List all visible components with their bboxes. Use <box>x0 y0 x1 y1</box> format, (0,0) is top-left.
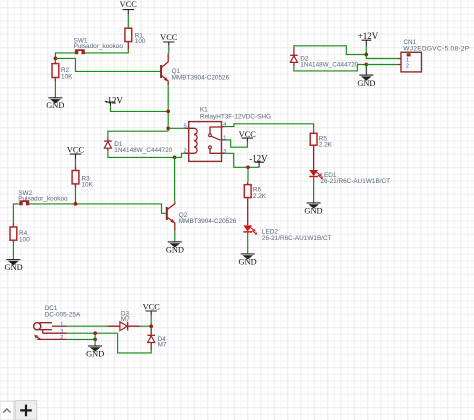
svg-text:10K: 10K <box>82 182 94 189</box>
wire junction to CN1 pin 2 <box>366 64 397 66</box>
wire -12V to Q1 emitter junction <box>111 106 169 111</box>
resistor R3 <box>72 166 94 188</box>
svg-text:2: 2 <box>406 64 409 70</box>
node junction relay pin 5 <box>166 126 170 130</box>
barrel jack DC1 DC-005-25A <box>34 305 81 341</box>
wire R3 to base line <box>75 188 77 204</box>
UI button zoom-in (bottom left) <box>15 401 37 420</box>
power flag VCC (net VCC, above R1) <box>120 0 138 14</box>
diode D2 1N4148W_C444720 <box>290 47 359 68</box>
ground GND (under Q2) <box>166 242 184 255</box>
node junction at R2 top <box>54 57 58 61</box>
pushbutton SW2 Pulsador_kookoo <box>18 190 68 206</box>
svg-text:MMBT3904-C20526: MMBT3904-C20526 <box>172 75 230 82</box>
svg-text:1N4148W_C444720: 1N4148W_C444720 <box>300 61 358 68</box>
wire branch junction to Q1 base <box>55 58 160 71</box>
svg-text:M7: M7 <box>121 316 130 323</box>
wire D3 cathode to VCC junction <box>139 325 151 327</box>
wire SW2 left to R4 <box>13 204 19 223</box>
wire R1 to SW1 <box>85 50 129 53</box>
wire junction to R6 <box>247 167 249 182</box>
svg-text:1N4148W_C444720: 1N4148W_C444720 <box>114 147 172 154</box>
wire Q2 emitter to GND <box>174 231 176 242</box>
resistor R5 <box>310 131 332 170</box>
transistor Q2 MMBT3904-C20526 <box>167 202 237 231</box>
ground GND (under LED2) <box>239 254 257 267</box>
resistor R2 <box>52 62 73 82</box>
wire D1 anode to Q2 collector / relay pin 2 <box>108 151 175 157</box>
connector CN1 WJ2EDGVC-5.08-2P <box>398 39 470 72</box>
wire DC1 pin1 to D3 <box>67 325 107 327</box>
power flag +12V (top right) <box>358 31 379 46</box>
svg-text:100: 100 <box>135 38 146 45</box>
node junction R6 top <box>246 165 250 169</box>
svg-text:VCC: VCC <box>239 130 257 139</box>
wire SW2 to Q2 base <box>29 204 166 213</box>
svg-text:Pulsador_kookoo: Pulsador_kookoo <box>74 43 124 50</box>
wire DC1 pin2 line <box>67 338 95 340</box>
svg-text:WJ2EDGVC-5.08-2P: WJ2EDGVC-5.08-2P <box>403 45 469 52</box>
resistor R4 <box>10 223 30 243</box>
svg-text:100: 100 <box>19 236 30 243</box>
relay coil <box>189 128 197 153</box>
wire D2 cathode to +12V / CN1 pin 1 <box>294 46 366 55</box>
power flag -12V (at Q1 emitter) <box>104 96 123 107</box>
node junction D3 / VCC / D4 <box>149 324 153 328</box>
node junction +12V / CN1 pin1 <box>364 53 368 57</box>
ground GND (under R2) <box>46 98 64 110</box>
svg-text:3: 3 <box>223 149 226 155</box>
diode D3 M7 <box>107 310 139 330</box>
wire DC1 pin3 line <box>67 332 118 334</box>
power flag VCC (bottom) <box>143 303 161 316</box>
svg-text:10K: 10K <box>61 73 73 80</box>
wire junction to relay pin 5 <box>168 127 185 129</box>
svg-text:VCC: VCC <box>120 0 138 9</box>
svg-text:VCC: VCC <box>143 303 161 312</box>
wire junction to CN1 pin 1 <box>366 55 397 59</box>
wire relay pin 4 to R5 <box>224 124 313 131</box>
svg-text:1: 1 <box>60 322 63 328</box>
LED LED1 26-21/R6C-AU1W1B/CT <box>309 170 390 185</box>
wire VCC to Q1 collector <box>168 46 170 54</box>
svg-text:GND: GND <box>5 263 23 272</box>
wire D4 anode back to jack pins <box>118 333 152 353</box>
wire relay pin 3 to -12V junction <box>224 153 259 167</box>
svg-text:5: 5 <box>183 124 186 130</box>
node junction pin2 / GND <box>93 338 97 342</box>
wire VCC to R1 <box>127 14 129 28</box>
wire LED2 to GND <box>247 233 249 254</box>
UI button collapse (bottom left) <box>0 401 14 420</box>
svg-text:1: 1 <box>223 136 226 142</box>
power flag VCC (above Q1) <box>160 33 178 46</box>
svg-text:DC-005-25A: DC-005-25A <box>45 311 81 318</box>
wire D2 anode to GND / CN1 pin 2 <box>294 65 366 71</box>
ground GND (under R4) <box>5 260 23 273</box>
svg-text:M7: M7 <box>158 342 167 349</box>
node junction D1/relay/Q2 <box>173 156 177 160</box>
wire junction down to Q2 collector <box>174 157 176 201</box>
node junction GND / CN1 pin2 <box>364 63 368 67</box>
wire SW1 to R2 corner <box>55 53 75 62</box>
svg-text:26-21/R6C-AU1W1B/CT: 26-21/R6C-AU1W1B/CT <box>262 235 332 242</box>
LED LED2 26-21/R6C-AU1W1B/CT <box>243 225 331 242</box>
svg-text:2.2K: 2.2K <box>319 142 333 149</box>
wire VCC to junction <box>150 316 152 326</box>
ground GND (under LED1) <box>304 203 322 216</box>
svg-text:2: 2 <box>60 335 63 341</box>
wire junctions to GND <box>94 333 96 346</box>
wire LED1 to GND <box>313 177 315 203</box>
wire R2 to GND <box>54 82 56 98</box>
relay K1 RelayHT3F-12VDC-SHG <box>183 106 270 161</box>
svg-text:2: 2 <box>183 149 186 155</box>
power flag -12V (below relay) <box>249 153 268 167</box>
transistor Q1 MMBT3904-C20526 <box>161 53 229 85</box>
node junction R3 / base line <box>74 202 78 206</box>
wire junction to relay pin 2 <box>175 153 186 157</box>
node junction Q1 emitter / -12V <box>166 110 170 114</box>
svg-text:4: 4 <box>223 122 226 128</box>
wire down-left to D1 cathode <box>108 131 168 138</box>
ground GND (under DC1) <box>86 346 104 359</box>
svg-text:26-21/R6C-AU1W1B/CT: 26-21/R6C-AU1W1B/CT <box>320 178 390 185</box>
wire VCC to R3 <box>75 160 77 167</box>
relay pin stubs <box>185 127 224 154</box>
wire relay pin 1 to VCC <box>224 140 247 147</box>
svg-text:GND: GND <box>46 101 64 110</box>
svg-text:-12V: -12V <box>104 96 123 106</box>
svg-text:GND: GND <box>239 258 257 267</box>
node junction pin3 / GND <box>93 331 97 335</box>
svg-text:GND: GND <box>357 79 375 88</box>
resistor R6 <box>244 182 266 225</box>
power flag VCC (right of relay) <box>239 130 257 142</box>
ground GND (top right) <box>357 67 375 88</box>
svg-text:MMBT3904-C20526: MMBT3904-C20526 <box>179 218 237 225</box>
svg-text:VCC: VCC <box>67 146 85 155</box>
wire junction down to GND flag <box>365 65 367 68</box>
svg-text:RelayHT3F-12VDC-SHG: RelayHT3F-12VDC-SHG <box>200 113 271 120</box>
svg-text:2.2K: 2.2K <box>253 193 267 200</box>
svg-text:VCC: VCC <box>160 33 178 42</box>
svg-text:GND: GND <box>86 350 104 359</box>
pushbutton SW1 Pulsador_kookoo <box>74 38 124 55</box>
wire Q1 emitter down to relay/D1 <box>167 85 169 131</box>
svg-text:GND: GND <box>304 207 322 216</box>
power flag VCC (above R3) <box>67 146 85 160</box>
diode D1 1N4148W_C444720 <box>104 138 173 154</box>
relay contacts <box>210 127 222 153</box>
svg-text:GND: GND <box>166 246 184 255</box>
diode D4 M7 <box>147 326 167 350</box>
wire +12V to junction <box>365 46 367 55</box>
resistor R1 <box>125 28 146 50</box>
svg-text:1: 1 <box>406 57 409 63</box>
wire R4 to GND <box>12 243 14 259</box>
